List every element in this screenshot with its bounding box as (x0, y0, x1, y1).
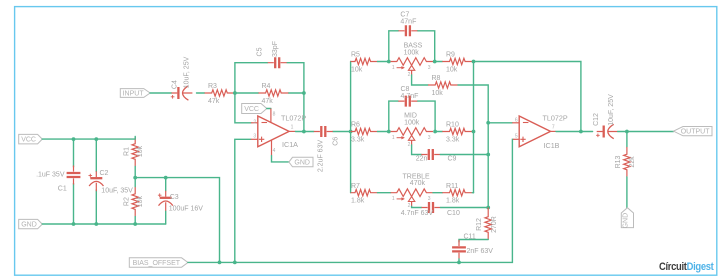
svg-text:R1: R1 (124, 147, 131, 156)
capacitor C9 (421, 154, 440, 156)
svg-text:INPUT: INPUT (123, 90, 145, 97)
svg-text:6: 6 (515, 117, 518, 123)
capacitor C3 (165, 191, 167, 211)
capacitor C2 (95, 171, 97, 191)
svg-text:47k: 47k (208, 98, 220, 105)
svg-text:GND: GND (21, 222, 37, 229)
svg-text:3.3k: 3.3k (351, 136, 365, 143)
junction C2 bottom (94, 222, 98, 226)
wire R6 to pot (378, 131, 389, 133)
wire mid wiper to C9 (412, 145, 422, 155)
wire C9 to inverting rail (440, 154, 488, 156)
wire R12 to C11 (459, 240, 488, 243)
VCC tag left (19, 134, 43, 144)
wire C3 branch (165, 178, 167, 224)
wire to R13 (626, 132, 628, 148)
svg-text:4.7nF 63V: 4.7nF 63V (401, 210, 434, 217)
svg-text:4.7nF: 4.7nF (401, 93, 419, 100)
resistor R10 (442, 128, 472, 134)
resistor R3 (205, 90, 235, 96)
junction R2 bottom (133, 222, 137, 226)
junction bias pin3 (233, 261, 237, 265)
svg-text:C4: C4 (171, 80, 178, 89)
junction C11 bias (457, 261, 461, 265)
svg-text:R6: R6 (351, 122, 360, 129)
wire right rail R9-R10-R11 (473, 62, 475, 193)
svg-text:C6: C6 (332, 137, 339, 146)
svg-text:5: 5 (515, 134, 518, 140)
resistor R11 (442, 190, 472, 196)
svg-text:R5: R5 (351, 52, 360, 59)
wire input row (150, 92, 204, 94)
svg-text:47nF: 47nF (400, 18, 416, 25)
svg-text:3: 3 (428, 135, 431, 141)
svg-text:47k: 47k (262, 98, 274, 105)
junction C1 top (72, 137, 76, 141)
junction R10 right (472, 130, 476, 134)
svg-text:R13: R13 (615, 155, 622, 168)
wire treble wiper to C10 (412, 206, 422, 207)
junction bass pot right (433, 60, 437, 64)
svg-text:10uF, 25V: 10uF, 25V (608, 94, 615, 126)
junction IC1A output (302, 130, 306, 134)
svg-text:470k: 470k (410, 180, 426, 187)
resistor R4 (258, 90, 288, 96)
svg-text:1: 1 (392, 65, 395, 71)
capacitor C11 (458, 240, 460, 259)
wire pin4 to GND (271, 141, 273, 156)
svg-text:1.8k: 1.8k (351, 198, 365, 205)
wire pin6 row (488, 122, 512, 124)
wire R13 to GND (626, 177, 628, 208)
svg-text:22n: 22n (416, 155, 428, 162)
svg-text:3: 3 (428, 65, 431, 71)
junction pin6 (486, 121, 490, 125)
junction C9 rail (486, 153, 490, 157)
wire VCC to pin8 (267, 108, 271, 110)
svg-text:VCC: VCC (244, 106, 259, 113)
junction R13 top (625, 130, 629, 134)
resistor R5 (351, 58, 378, 64)
svg-text:2nF 63V: 2nF 63V (467, 248, 494, 255)
svg-text:10uF, 35V: 10uF, 35V (101, 187, 133, 194)
wire C2 branch (95, 139, 97, 224)
resistor R12 (487, 208, 489, 210)
junction C3 top (164, 176, 168, 180)
svg-text:R10: R10 (446, 122, 459, 129)
wire R7 to pot (378, 192, 391, 194)
svg-text:.1uF 35V: .1uF 35V (36, 172, 65, 179)
resistor R13 (624, 147, 630, 177)
junction feedback right (302, 91, 306, 95)
wire R5 to pot (378, 61, 389, 63)
resistor R6 (351, 128, 378, 134)
wire IC1A output (289, 130, 295, 132)
wire C10 to rail (441, 207, 489, 209)
wire VCC rail (42, 138, 135, 140)
capacitor C12 (597, 131, 618, 133)
svg-text:33pF: 33pF (272, 41, 279, 57)
svg-text:22k: 22k (629, 156, 636, 168)
wire output to C6 (304, 131, 351, 133)
resistor R7 (351, 190, 378, 196)
svg-text:270R: 270R (491, 216, 498, 233)
capacitor C7 (398, 30, 417, 32)
svg-text:100uF 16V: 100uF 16V (169, 206, 204, 213)
wire pin3 from bias (235, 139, 251, 262)
svg-text:GND: GND (294, 159, 310, 166)
svg-text:1: 1 (291, 124, 294, 130)
INPUT tag (120, 89, 150, 98)
svg-text:100k: 100k (404, 119, 420, 126)
svg-text:C3: C3 (170, 194, 179, 201)
svg-text:R3: R3 (208, 83, 217, 90)
wire feedback to IC1B output (474, 62, 581, 132)
junction C10 R12 (486, 206, 490, 210)
op-amp IC1A (258, 116, 289, 147)
svg-text:C2: C2 (100, 170, 109, 177)
wire C5 feedback loop (235, 63, 304, 93)
junction bass pot left (387, 60, 391, 64)
junction R9 right (472, 60, 476, 64)
svg-text:BIAS_OFFSET: BIAS_OFFSET (133, 260, 181, 267)
svg-text:R11: R11 (446, 183, 458, 190)
svg-text:C11: C11 (464, 234, 476, 241)
junction C1 bottom (72, 222, 76, 226)
svg-text:2: 2 (408, 72, 411, 78)
svg-text:C10: C10 (447, 210, 460, 217)
svg-text:GND: GND (622, 213, 629, 229)
svg-text:3.3k: 3.3k (446, 136, 460, 143)
wire R1 to mid node (134, 137, 136, 178)
svg-text:1: 1 (392, 196, 395, 202)
wire C7 loop (389, 31, 435, 62)
junction mid pot right (433, 130, 437, 134)
svg-text:10k: 10k (351, 66, 363, 73)
svg-text:7: 7 (552, 124, 555, 130)
wire inverting rail middle (487, 123, 489, 208)
svg-text:TL072P: TL072P (281, 114, 306, 123)
junction C6 right (349, 130, 353, 134)
svg-text:2: 2 (408, 142, 411, 148)
wire pot to R10 (435, 131, 442, 133)
svg-text:2: 2 (408, 203, 411, 209)
wire IC1B output (551, 130, 557, 132)
capacitor C8 (398, 100, 417, 102)
svg-text:R9: R9 (446, 52, 455, 59)
svg-text:8: 8 (273, 111, 276, 117)
junction IC1B output (579, 130, 583, 134)
svg-text:C9: C9 (448, 155, 457, 162)
svg-text:OUTPUT: OUTPUT (681, 129, 711, 136)
GND tag at IC1A (289, 157, 313, 167)
VCC tag at IC1A (242, 104, 267, 114)
junction R1 R2 mid (133, 176, 137, 180)
potentiometer TREBLE 470k (391, 189, 433, 197)
svg-text:R8: R8 (432, 75, 441, 82)
potentiometer MID 100k (391, 128, 433, 136)
junction C2 top (94, 137, 98, 141)
capacitor C6 (314, 131, 333, 133)
resistor R9 (442, 58, 472, 64)
resistor R2 (132, 187, 138, 217)
svg-text:TL072P: TL072P (543, 113, 568, 122)
wire mid rail (135, 178, 219, 263)
capacitor C5 (268, 62, 287, 64)
svg-text:IC1B: IC1B (544, 141, 560, 150)
wire GND rail (42, 223, 165, 225)
svg-text:VCC: VCC (21, 137, 36, 144)
svg-text:100k: 100k (404, 49, 420, 56)
svg-text:IC1A: IC1A (282, 140, 298, 149)
wire node to pin2 (235, 93, 251, 123)
potentiometer BASS 100k (391, 58, 433, 66)
wire pot to R11 (433, 192, 442, 194)
OUTPUT tag (674, 127, 713, 136)
svg-text:1.8k: 1.8k (446, 198, 460, 205)
svg-text:C5: C5 (256, 47, 263, 56)
svg-text:10k: 10k (432, 90, 444, 97)
capacitor C10 (422, 207, 441, 209)
wire R2 to GND rail (134, 178, 136, 224)
wire C11 to bias rail (458, 259, 460, 263)
svg-text:3: 3 (428, 196, 431, 202)
BIAS_OFFSET tag (129, 258, 188, 267)
wire R8 to inverting rail (458, 85, 488, 123)
wire left rail of filter (350, 62, 352, 193)
svg-text:C1: C1 (58, 186, 67, 193)
svg-text:R2: R2 (124, 197, 131, 206)
svg-text:C12: C12 (593, 113, 600, 126)
svg-text:10k: 10k (137, 145, 144, 157)
wire R11 to right rail (472, 192, 473, 194)
GND tag vertical (621, 208, 633, 228)
svg-text:R7: R7 (351, 183, 360, 190)
svg-text:2.2uF 63V: 2.2uF 63V (317, 140, 324, 173)
svg-text:10k: 10k (137, 195, 144, 207)
resistor R1 (132, 137, 138, 167)
wire bass wiper to R8 (412, 75, 428, 85)
svg-text:2: 2 (253, 119, 256, 125)
wire pot to R9 (435, 61, 443, 63)
capacitor C1 (73, 166, 75, 185)
svg-text:R12: R12 (476, 218, 483, 231)
svg-text:R4: R4 (262, 83, 271, 90)
svg-text:CírcuitDigest: CírcuitDigest (659, 261, 714, 273)
junction mid pot left (387, 130, 391, 134)
op-amp IC1B (519, 116, 550, 147)
svg-text:10uF, 25V: 10uF, 25V (183, 56, 190, 88)
svg-text:1: 1 (392, 135, 395, 141)
wire C8 loop (389, 101, 435, 131)
wire C12 to output (618, 131, 674, 133)
wire bias rail (188, 139, 513, 262)
wire C1 branch (73, 139, 75, 224)
wire feedback down to output (303, 93, 305, 132)
capacitor C4 (171, 92, 192, 94)
node inverting input IC1A (233, 91, 237, 95)
GND tag left (19, 219, 43, 228)
resistor R8 (428, 82, 458, 88)
junction bias mid-rail (218, 261, 222, 265)
svg-text:10k: 10k (446, 66, 458, 73)
wire R4 row (235, 92, 304, 94)
svg-text:4: 4 (273, 148, 276, 154)
